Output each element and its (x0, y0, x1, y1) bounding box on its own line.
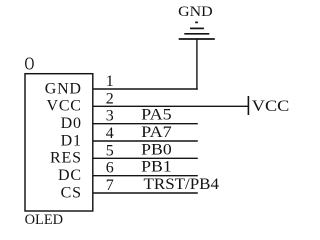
svg-text:6: 6 (106, 160, 114, 177)
svg-text:RES: RES (50, 150, 82, 167)
svg-text:2: 2 (106, 90, 114, 107)
svg-text:O: O (25, 53, 35, 73)
svg-text:7: 7 (106, 177, 114, 194)
svg-text:GND: GND (45, 80, 82, 97)
svg-text:D1: D1 (61, 132, 82, 149)
svg-text:4: 4 (106, 125, 114, 142)
svg-text:OLED: OLED (25, 212, 64, 228)
svg-text:3: 3 (106, 108, 114, 125)
svg-text:D0: D0 (61, 115, 82, 132)
svg-text:PA7: PA7 (141, 124, 172, 141)
svg-text:CS: CS (61, 184, 82, 201)
svg-text:PA5: PA5 (141, 107, 172, 124)
svg-text:DC: DC (58, 167, 82, 184)
svg-text:TRST/PB4: TRST/PB4 (144, 176, 220, 193)
svg-text:VCC: VCC (46, 98, 81, 115)
svg-text:PB1: PB1 (141, 159, 172, 176)
svg-text:PB0: PB0 (141, 141, 172, 158)
svg-text:VCC: VCC (252, 98, 289, 115)
svg-text:GND: GND (178, 4, 213, 20)
svg-text:5: 5 (106, 142, 114, 159)
svg-text:1: 1 (106, 73, 114, 90)
